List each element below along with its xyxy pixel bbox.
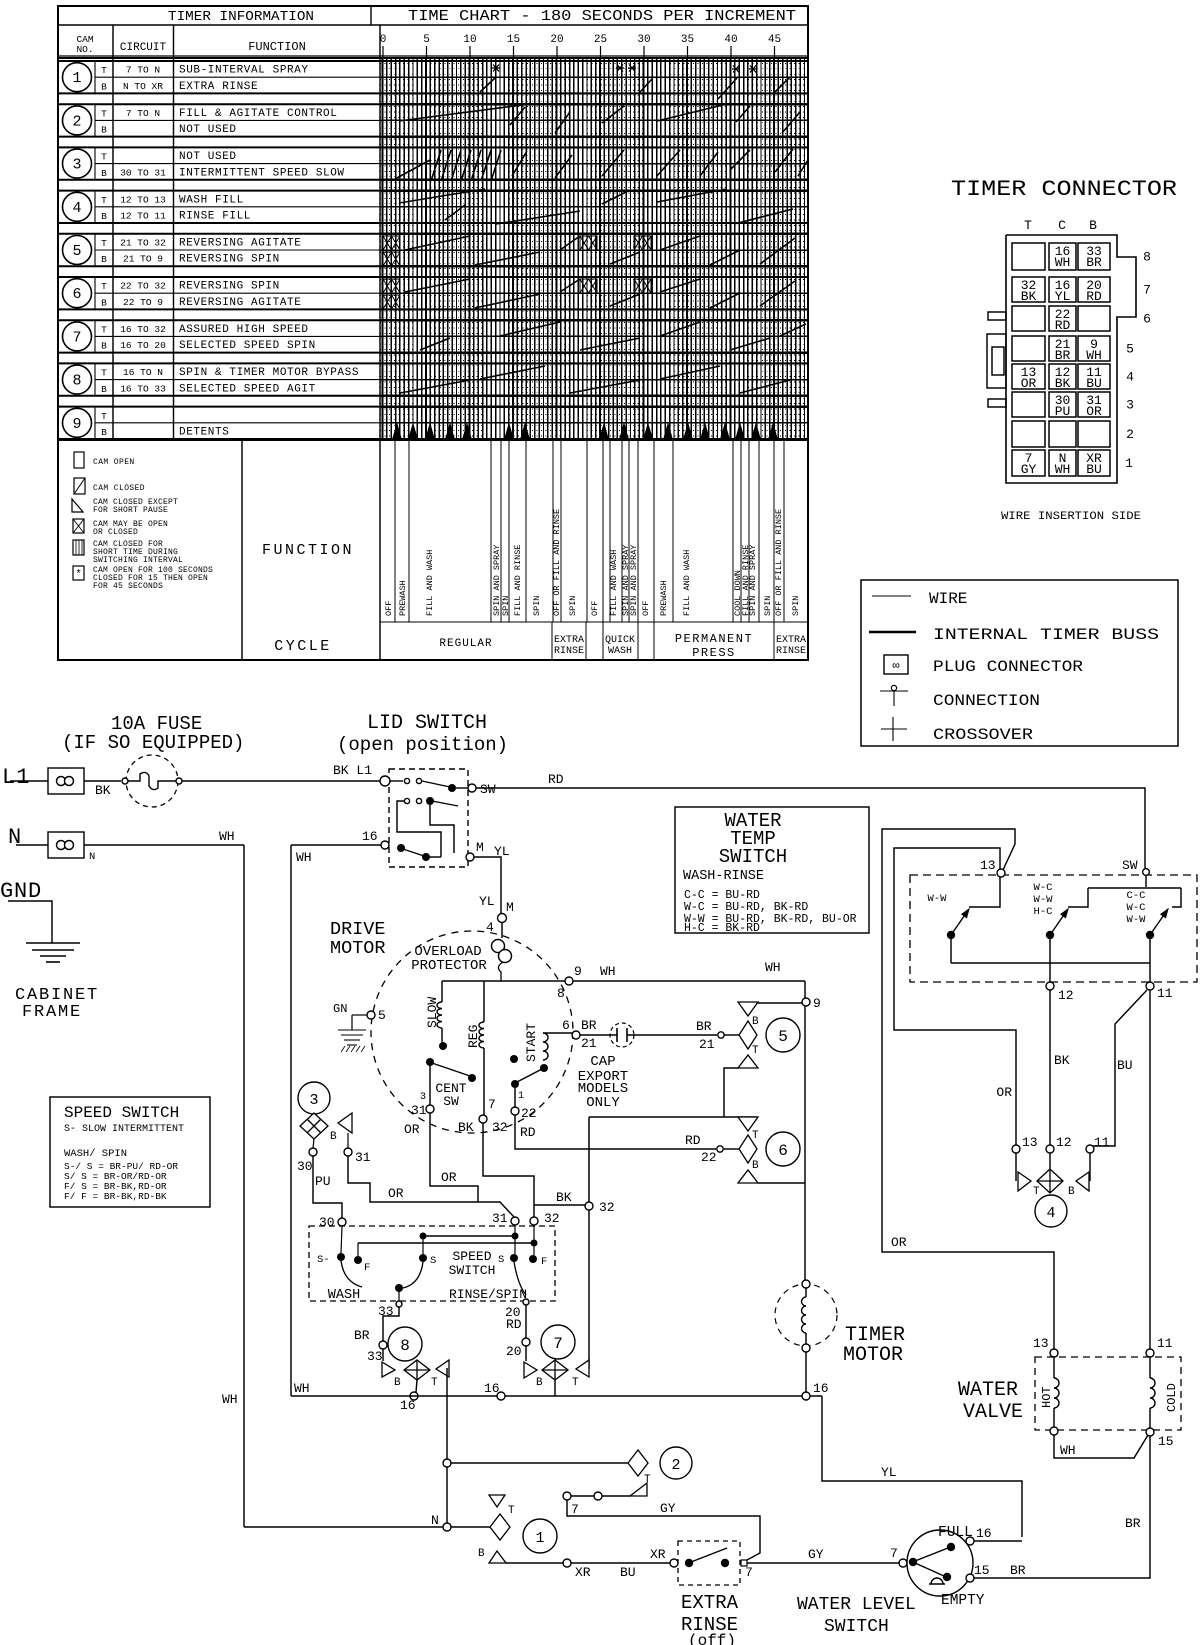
contact 6 label circle (766, 1132, 800, 1166)
svg-text:EXTRA: EXTRA (776, 635, 806, 646)
svg-text:3: 3 (309, 1092, 318, 1109)
svg-text:SWITCH: SWITCH (449, 1263, 496, 1278)
svg-text:S: S (430, 1255, 436, 1267)
svg-text:WH: WH (222, 1392, 238, 1407)
svg-text:16 TO 20: 16 TO 20 (120, 340, 166, 351)
svg-text:PROTECTOR: PROTECTOR (411, 958, 487, 974)
svg-text:RINSE/SPIN: RINSE/SPIN (449, 1287, 527, 1302)
svg-text:H-C: H-C (1034, 906, 1053, 918)
svg-text:CAM CLOSED: CAM CLOSED (93, 484, 145, 493)
cam 3 row (58, 147, 808, 179)
svg-text:7: 7 (553, 1335, 563, 1353)
wire WH neutral to left rail (84, 844, 244, 846)
svg-text:16: 16 (976, 1526, 992, 1541)
svg-text:B: B (394, 1377, 401, 1389)
svg-text:40: 40 (724, 34, 737, 46)
svg-text:45: 45 (768, 34, 781, 46)
svg-text:B: B (101, 168, 107, 179)
detent triangles (393, 424, 777, 438)
svg-text:GND: GND (0, 879, 42, 904)
svg-text:SWITCH: SWITCH (719, 846, 787, 868)
timer connector body outline (1006, 235, 1136, 483)
svg-text:22 TO 9: 22 TO 9 (123, 297, 163, 308)
svg-text:(open position): (open position) (337, 734, 508, 756)
svg-text:15: 15 (974, 1563, 990, 1578)
svg-text:11: 11 (1157, 986, 1173, 1001)
svg-text:2: 2 (72, 113, 81, 130)
svg-text:SPIN: SPIN (501, 596, 511, 616)
svg-text:WH: WH (1055, 255, 1071, 270)
svg-text:SPIN AND SPRAY: SPIN AND SPRAY (629, 545, 639, 616)
svg-text:T: T (101, 368, 107, 379)
svg-text:SW: SW (443, 1094, 459, 1109)
svg-text:EMPTY: EMPTY (941, 1593, 985, 1609)
speed switch terminal 31 (511, 1217, 519, 1225)
svg-text:OR: OR (1021, 376, 1037, 391)
svg-text:7: 7 (745, 1565, 753, 1580)
svg-text:GY: GY (1021, 462, 1037, 477)
svg-text:B: B (101, 211, 107, 222)
svg-text:21: 21 (699, 1037, 715, 1052)
contact 1 cam diamond (451, 1526, 490, 1528)
svg-text:30: 30 (319, 1215, 335, 1230)
terminal 16 of lid switch (381, 841, 389, 849)
legend connection symbol (880, 690, 908, 692)
water valve (dashed box) (1035, 1357, 1181, 1430)
svg-text:NO.: NO. (76, 44, 93, 55)
svg-text:∞: ∞ (892, 659, 899, 673)
svg-text:EXTRA: EXTRA (681, 1592, 739, 1614)
plug connector node L1 at lid switch (380, 776, 390, 786)
svg-text:20: 20 (550, 34, 563, 46)
svg-text:CIRCUIT: CIRCUIT (120, 42, 167, 54)
svg-text:FILL AND WASH: FILL AND WASH (682, 550, 692, 616)
svg-text:XR: XR (575, 1565, 591, 1580)
svg-text:RD: RD (1055, 318, 1071, 333)
time chart grid horizontal row lines (380, 61, 808, 439)
svg-text:20: 20 (506, 1344, 522, 1359)
node 32 BK (585, 1202, 593, 1210)
wire GY to water level switch (747, 1562, 899, 1564)
svg-text:GY: GY (660, 1501, 676, 1516)
svg-text:WIRE: WIRE (929, 590, 967, 608)
svg-text:7: 7 (890, 1546, 898, 1561)
cam 8 row (58, 363, 808, 395)
svg-text:N TO XR: N TO XR (123, 81, 163, 92)
svg-text:BR: BR (1086, 255, 1102, 270)
contact 8 terminal B triangle (382, 1362, 395, 1377)
svg-text:T: T (101, 65, 107, 76)
svg-text:BU: BU (1086, 376, 1102, 391)
node 21 BR at contact 5 (718, 1032, 724, 1038)
svg-text:CAP: CAP (590, 1054, 615, 1070)
node 9 on motor bus (565, 977, 573, 985)
svg-text:FULL: FULL (938, 1525, 973, 1541)
svg-text:WH: WH (600, 964, 616, 979)
svg-text:B: B (101, 427, 107, 438)
svg-text:OFF: OFF (590, 601, 600, 616)
lid switch top contact (390, 780, 403, 782)
svg-text:FUNCTION: FUNCTION (262, 542, 354, 559)
svg-text:25: 25 (594, 34, 607, 46)
legend plug connector symbol (884, 655, 908, 674)
svg-text:REGULAR: REGULAR (439, 638, 492, 650)
svg-text:1: 1 (518, 1091, 524, 1102)
svg-text:SPIN & TIMER MOTOR BYPASS: SPIN & TIMER MOTOR BYPASS (179, 367, 359, 379)
wire from timer motor to node 16 (805, 1352, 807, 1392)
svg-text:FILL AND RINSE: FILL AND RINSE (513, 545, 523, 616)
svg-text:13: 13 (1022, 1135, 1038, 1150)
svg-text:HOT: HOT (1040, 1386, 1054, 1408)
svg-text:YL: YL (881, 1465, 897, 1480)
fuse (dashed circle) (126, 755, 178, 807)
time chart dotted horizontal texture (380, 63, 808, 436)
svg-text:16: 16 (400, 1398, 416, 1413)
WH bottom rail (291, 1395, 822, 1397)
contact 2 cam diamond (451, 1462, 628, 1464)
svg-text:T: T (431, 1377, 438, 1389)
svg-text:L1: L1 (2, 765, 30, 790)
contact 4 label circle (1035, 1195, 1067, 1227)
cycle phase column lines (380, 440, 808, 622)
svg-text:32: 32 (492, 1120, 508, 1135)
wire BK from node 12 to contact 4 terminal 12 (1049, 990, 1051, 1145)
wire from contact 8 B to WH rail (416, 1380, 417, 1392)
svg-text:30: 30 (297, 1159, 313, 1174)
svg-text:B: B (101, 297, 107, 308)
svg-text:INTERMITTENT SPEED SLOW: INTERMITTENT SPEED SLOW (179, 167, 345, 179)
node 7 BK (479, 1115, 487, 1123)
cam legend symbols (72, 452, 213, 591)
svg-text:B: B (330, 1131, 337, 1143)
svg-text:16: 16 (813, 1381, 829, 1396)
legend internal timer buss symbol (869, 631, 916, 634)
svg-text:(IF SO EQUIPPED): (IF SO EQUIPPED) (62, 732, 244, 754)
wire OR outer from node 13 to water valve 13 (882, 829, 1054, 1349)
svg-text:32: 32 (544, 1211, 560, 1226)
contact 4 terminal 11 (1086, 1145, 1094, 1153)
svg-text:C: C (1058, 218, 1066, 233)
svg-text:8: 8 (72, 373, 81, 390)
contact 6 cam diamond (739, 1135, 757, 1163)
water temp switch node 13 (997, 869, 1005, 877)
wire from contact 6 B down to timer motor (804, 1183, 806, 1280)
speed switch wash rail (423, 1235, 515, 1237)
contact 2 label circle (660, 1447, 692, 1479)
wire from contact 7 B to WH rail (554, 1380, 556, 1396)
svg-text:T: T (644, 1474, 651, 1486)
svg-text:T: T (508, 1505, 515, 1517)
plug connector N (48, 832, 84, 858)
svg-text:21: 21 (581, 1036, 597, 1051)
svg-text:ASSURED HIGH SPEED: ASSURED HIGH SPEED (179, 324, 309, 336)
svg-text:16 TO 33: 16 TO 33 (120, 383, 166, 394)
lid switch (dashed box) (389, 769, 468, 867)
svg-text:4: 4 (1126, 370, 1134, 385)
svg-text:FOR 45 SECONDS: FOR 45 SECONDS (93, 582, 163, 591)
speed switch terminal 30 (338, 1218, 346, 1226)
svg-text:13: 13 (980, 858, 996, 873)
svg-text:SWITCHING INTERVAL: SWITCHING INTERVAL (93, 556, 183, 565)
svg-text:FILL AND WASH: FILL AND WASH (425, 550, 435, 616)
contact 3 cam diamond (300, 1113, 328, 1139)
wire WH from hot valve to node 15 (1054, 1435, 1148, 1458)
svg-text:7: 7 (72, 329, 81, 346)
svg-text:SLOW: SLOW (425, 997, 440, 1028)
speed switch wiper to 33 (398, 1288, 400, 1301)
svg-text:SPIN: SPIN (791, 596, 801, 616)
svg-text:PREWASH: PREWASH (659, 580, 669, 616)
time scale numbers (380, 34, 781, 57)
svg-text:B: B (752, 1160, 759, 1172)
wire BK from node 7 to node 32 (483, 1123, 534, 1217)
svg-text:OFF: OFF (641, 601, 651, 616)
svg-text:5: 5 (378, 1008, 386, 1023)
svg-text:BR: BR (696, 1019, 712, 1034)
svg-text:33: 33 (378, 1304, 394, 1319)
svg-text:B: B (1089, 218, 1097, 233)
legend crossover symbol (881, 728, 907, 730)
timer motor (dashed circle) (775, 1284, 837, 1346)
water temp switch bottom rail (950, 939, 952, 963)
svg-text:12 TO 13: 12 TO 13 (120, 194, 166, 205)
svg-text:22 TO 32: 22 TO 32 (120, 281, 166, 292)
node 22 RD at contact 6 (717, 1146, 723, 1152)
contact 6 terminal T triangle (738, 1117, 758, 1131)
svg-text:16: 16 (362, 829, 378, 844)
svg-text:0: 0 (380, 34, 387, 46)
svg-text:FOR SHORT PAUSE: FOR SHORT PAUSE (93, 506, 168, 515)
svg-text:B: B (101, 384, 107, 395)
svg-text:S- SLOW INTERMITTENT: S- SLOW INTERMITTENT (64, 1124, 184, 1135)
svg-text:9: 9 (72, 416, 81, 433)
contact 7 label circle (541, 1325, 575, 1359)
svg-text:31: 31 (411, 1103, 427, 1118)
svg-text:9: 9 (813, 996, 821, 1011)
svg-text:GN: GN (333, 1002, 347, 1016)
cam 1 row (58, 61, 808, 93)
water temp switch (dashed box) (910, 875, 1197, 982)
cabinet frame ground symbol (26, 943, 80, 962)
svg-text:RD: RD (1086, 289, 1102, 304)
svg-text:LID SWITCH: LID SWITCH (367, 712, 487, 735)
contact 4 terminal 12 (1046, 1145, 1054, 1153)
svg-text:WH: WH (219, 829, 235, 844)
svg-text:5: 5 (423, 34, 430, 46)
contact 8 cam diamond (404, 1360, 430, 1380)
internal buss from contact pair to speed switch (588, 1117, 590, 1202)
svg-text:31: 31 (492, 1211, 508, 1226)
svg-text:RD: RD (506, 1317, 522, 1332)
svg-text:(off): (off) (688, 1632, 736, 1645)
wire WH from lid switch 16 down the left side (291, 844, 381, 846)
svg-text:PREWASH: PREWASH (398, 580, 408, 616)
svg-text:7 TO N: 7 TO N (126, 108, 160, 119)
contact 5 cam diamond (739, 1021, 757, 1049)
svg-text:SPIN: SPIN (568, 596, 578, 616)
svg-text:B: B (478, 1548, 485, 1560)
cycle row separators (552, 622, 774, 660)
svg-text:REVERSING AGITATE: REVERSING AGITATE (179, 297, 301, 309)
speed switch (dashed box) (309, 1226, 555, 1301)
slow winding (441, 981, 443, 1002)
svg-text:SPEED: SPEED (452, 1249, 491, 1264)
water valve node 13 (1050, 1349, 1058, 1357)
svg-text:N: N (431, 1513, 439, 1528)
svg-text:T: T (101, 411, 107, 422)
svg-text:OR: OR (441, 1170, 457, 1185)
wire BU from node 11 to contact 4 terminal 11 (1090, 990, 1147, 1147)
svg-text:BU: BU (620, 1565, 636, 1580)
speed switch wiper to 20 (514, 1262, 526, 1295)
svg-text:S: S (498, 1254, 504, 1266)
contact 5 label circle (766, 1018, 800, 1052)
svg-text:SELECTED SPEED SPIN: SELECTED SPEED SPIN (179, 340, 316, 352)
svg-text:BR: BR (354, 1328, 370, 1343)
svg-text:BK: BK (1021, 289, 1037, 304)
svg-text:WASH-RINSE: WASH-RINSE (683, 869, 764, 884)
wire YL from node 16 to water level switch FULL (822, 1396, 1022, 1537)
svg-text:YL: YL (479, 894, 495, 909)
svg-text:13: 13 (1033, 1336, 1049, 1351)
wire PU from contact 3 to speed switch 30 (313, 1156, 342, 1218)
svg-text:9: 9 (574, 964, 582, 979)
svg-text:PERMANENT: PERMANENT (675, 632, 753, 646)
svg-text:WATER: WATER (958, 1379, 1018, 1402)
node 22 RD (511, 1107, 519, 1115)
svg-text:WASH: WASH (608, 646, 632, 657)
svg-text:WH: WH (1086, 348, 1102, 363)
centrifugal switch (426, 1058, 434, 1066)
svg-text:CROSSOVER: CROSSOVER (933, 726, 1033, 744)
internal buss 32 horizontal (589, 1116, 757, 1118)
svg-text:OFF OR FILL AND RINSE: OFF OR FILL AND RINSE (774, 509, 784, 616)
svg-text:6: 6 (72, 286, 81, 303)
svg-text:1: 1 (1125, 456, 1133, 471)
wire WH neutral down to contact 1 (243, 845, 245, 1527)
timer information table frame (58, 6, 808, 660)
svg-text:REVERSING SPIN: REVERSING SPIN (179, 281, 280, 293)
svg-text:6: 6 (1143, 312, 1151, 327)
svg-text:B: B (101, 341, 107, 352)
svg-text:BR: BR (1125, 1516, 1141, 1531)
svg-text:1: 1 (535, 1530, 544, 1547)
svg-text:16 TO N: 16 TO N (123, 367, 163, 378)
svg-text:REG: REG (466, 1025, 481, 1048)
svg-text:OR: OR (1086, 404, 1102, 419)
svg-text:SUB-INTERVAL SPRAY: SUB-INTERVAL SPRAY (179, 65, 309, 77)
svg-text:3: 3 (1126, 398, 1134, 413)
svg-text:SPIN AND SPRAY: SPIN AND SPRAY (748, 545, 758, 616)
lid switch middle contact (404, 798, 409, 803)
svg-text:31: 31 (355, 1150, 371, 1165)
svg-text:PU: PU (1055, 404, 1071, 419)
contact 4 terminal T triangle (1015, 1153, 1017, 1181)
svg-text:8: 8 (400, 1337, 410, 1355)
svg-text:REVERSING AGITATE: REVERSING AGITATE (179, 238, 301, 250)
svg-text:B: B (101, 125, 107, 136)
reg winding (483, 981, 485, 1022)
svg-text:SELECTED SPEED AGIT: SELECTED SPEED AGIT (179, 383, 316, 395)
contact 3 label circle (298, 1082, 330, 1114)
wire OR inner from node 13 to contact 4 terminal 13 (894, 848, 1016, 1145)
contact 3 terminal B triangle (338, 1113, 352, 1133)
svg-text:35: 35 (681, 34, 694, 46)
cycle phase rotated labels (384, 509, 801, 616)
svg-text:T: T (752, 1130, 759, 1142)
svg-text:OR: OR (388, 1186, 404, 1201)
svg-text:OR: OR (891, 1235, 907, 1250)
svg-text:4: 4 (486, 920, 494, 935)
water temp switch node 11 (1146, 982, 1154, 990)
speed switch rinse rail (358, 1242, 534, 1244)
cam 7 row (58, 320, 808, 352)
svg-text:B: B (536, 1377, 543, 1389)
svg-text:RINSE: RINSE (554, 646, 584, 657)
svg-text:OFF OR FILL AND RINSE: OFF OR FILL AND RINSE (552, 509, 562, 616)
svg-text:W-W: W-W (1127, 914, 1147, 926)
svg-text:33: 33 (367, 1349, 383, 1364)
overload protector element (501, 922, 503, 938)
svg-text:WASH FILL: WASH FILL (179, 194, 244, 206)
svg-text:TIME CHART - 180 SECONDS PER I: TIME CHART - 180 SECONDS PER INCREMENT (408, 8, 796, 25)
svg-text:22: 22 (521, 1106, 537, 1121)
svg-text:5: 5 (72, 243, 81, 260)
svg-text:START: START (524, 1023, 539, 1062)
svg-text:WH: WH (294, 1381, 310, 1396)
time chart hatched cam cells (383, 236, 400, 250)
motor internal bus (442, 980, 805, 982)
contact 1 terminal T triangle (489, 1495, 505, 1507)
svg-text:BR: BR (581, 1018, 597, 1033)
timer connector pin cells (1012, 243, 1151, 477)
svg-text:B: B (101, 254, 107, 265)
svg-text:BU: BU (1117, 1058, 1133, 1073)
svg-text:RINSE FILL: RINSE FILL (179, 211, 251, 223)
wire BR from EMPTY to water valve (974, 1436, 1150, 1578)
time chart grid vertical lines (383, 58, 805, 440)
svg-text:MOTOR: MOTOR (843, 1344, 903, 1367)
svg-text:BK: BK (1054, 1053, 1070, 1068)
node N at contact 1 (443, 1523, 451, 1531)
svg-text:SPEED SWITCH: SPEED SWITCH (64, 1104, 179, 1122)
contact 5 terminal B triangle (757, 1002, 802, 1004)
contact 1 label circle (523, 1519, 557, 1553)
svg-text:T: T (752, 1045, 759, 1057)
svg-text:PLUG CONNECTOR: PLUG CONNECTOR (933, 658, 1083, 676)
svg-text:WASH/ SPIN: WASH/ SPIN (64, 1148, 127, 1160)
wire from contact 5 T to contact 6 T (724, 1068, 739, 1117)
svg-text:T: T (101, 152, 107, 163)
svg-text:22: 22 (701, 1150, 717, 1165)
water temp switch top rail from SW (1088, 887, 1181, 889)
wire from contact 8 T down to contacts 1-2 (446, 1368, 448, 1527)
svg-text:RD: RD (520, 1125, 536, 1140)
svg-text:ONLY: ONLY (586, 1095, 620, 1111)
svg-text:5: 5 (1126, 342, 1134, 357)
cycle names (439, 632, 806, 660)
svg-text:EXTRA RINSE: EXTRA RINSE (179, 81, 258, 93)
svg-text:BK: BK (458, 1120, 474, 1135)
svg-text:M: M (476, 840, 484, 855)
svg-text:SW: SW (1122, 858, 1138, 873)
svg-text:C-C: C-C (1127, 890, 1146, 902)
svg-text:15: 15 (1158, 1434, 1174, 1449)
svg-text:F: F (364, 1262, 370, 1274)
svg-text:COLD: COLD (1165, 1383, 1179, 1412)
svg-text:10: 10 (463, 34, 476, 46)
svg-text:H-C = BK-RD: H-C = BK-RD (684, 922, 760, 935)
